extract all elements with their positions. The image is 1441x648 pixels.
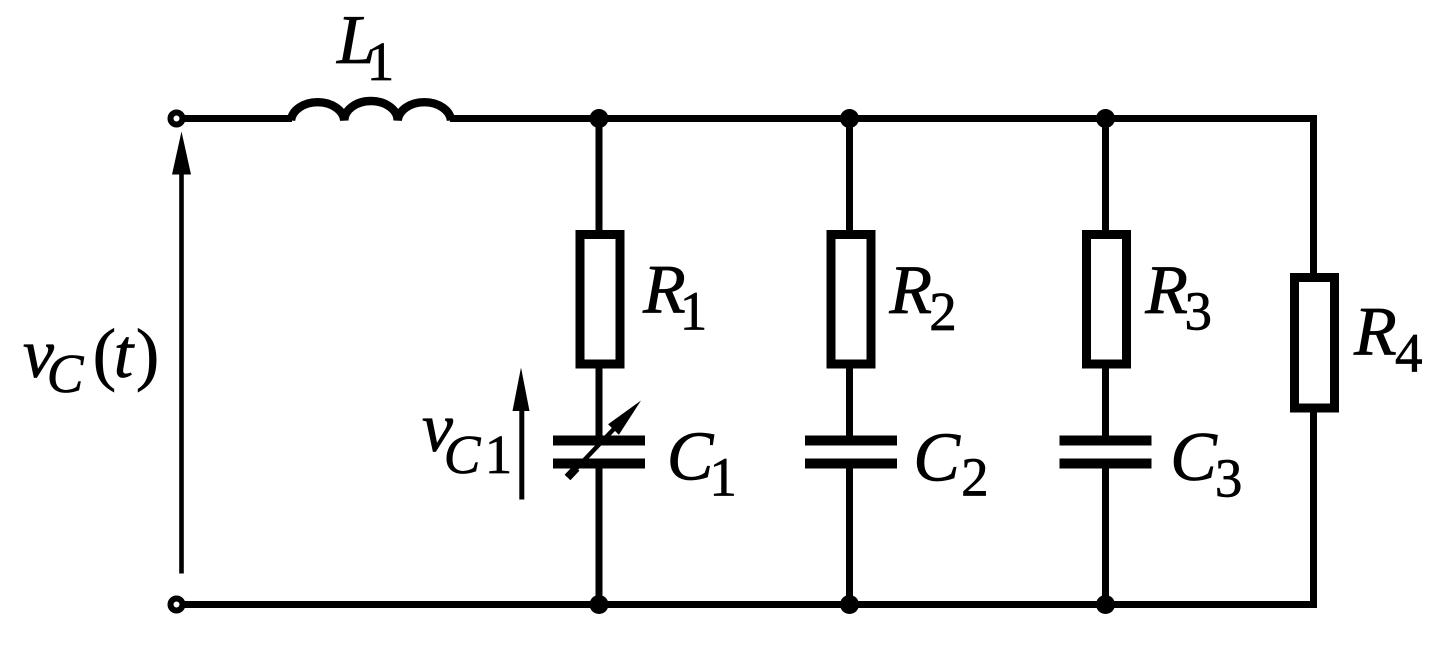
node dot top 3 bbox=[1096, 109, 1115, 128]
wire branch 2 lower bbox=[846, 462, 853, 605]
capacitor C3 bbox=[1060, 436, 1152, 469]
arrow v_C(t) bbox=[172, 132, 191, 574]
svg-text:1: 1 bbox=[367, 31, 395, 92]
svg-text:C: C bbox=[913, 419, 961, 496]
label C1 bbox=[667, 419, 737, 508]
inductor L1 bbox=[291, 101, 451, 121]
capacitor C2 bbox=[805, 436, 897, 469]
arrow v_C1 bbox=[513, 368, 530, 500]
label v_C1 bbox=[422, 390, 512, 485]
terminal top-left bbox=[171, 113, 183, 125]
svg-text:3: 3 bbox=[1215, 447, 1243, 508]
capacitor C1 (variable) bbox=[553, 436, 645, 469]
wire branch 3 lower bbox=[1102, 462, 1109, 605]
svg-text:4: 4 bbox=[1395, 322, 1423, 383]
label R2 bbox=[888, 252, 956, 342]
svg-text:1: 1 bbox=[680, 281, 708, 342]
svg-text:R: R bbox=[1144, 252, 1188, 329]
resistor R1 bbox=[580, 235, 620, 365]
svg-text:2: 2 bbox=[961, 447, 989, 508]
svg-text:1: 1 bbox=[485, 424, 513, 485]
label v_C(t) bbox=[23, 316, 159, 404]
label L1 bbox=[336, 2, 394, 92]
svg-text:2: 2 bbox=[929, 281, 957, 342]
svg-text:C: C bbox=[1170, 419, 1218, 496]
wire branch 3 upper bbox=[1102, 119, 1109, 441]
label C3 bbox=[1170, 419, 1242, 509]
node dot bottom 2 bbox=[840, 595, 859, 614]
svg-text:C: C bbox=[47, 343, 85, 404]
wire top from inductor to right corner and down to R4 bbox=[183, 119, 1314, 605]
svg-text:t: t bbox=[114, 316, 135, 393]
resistor R3 bbox=[1087, 235, 1127, 365]
svg-text:): ) bbox=[136, 316, 159, 393]
terminal bottom-left bbox=[171, 599, 183, 611]
node dot top 1 bbox=[590, 109, 609, 128]
node dot bottom 3 bbox=[1096, 595, 1115, 614]
svg-text:R: R bbox=[1353, 293, 1397, 370]
resistor R2 bbox=[831, 235, 871, 365]
svg-text:1: 1 bbox=[709, 447, 737, 508]
svg-text:R: R bbox=[888, 252, 932, 329]
svg-text:(: ( bbox=[93, 316, 116, 393]
label R1 bbox=[642, 252, 707, 342]
svg-text:3: 3 bbox=[1185, 281, 1213, 342]
arrow through C1 (variable capacitor) bbox=[568, 401, 642, 478]
wire branch 2 upper bbox=[846, 119, 853, 441]
node dot bottom 1 bbox=[590, 595, 609, 614]
label C2 bbox=[913, 419, 988, 507]
resistor R4 bbox=[1295, 278, 1335, 409]
wire top-left segment bbox=[183, 115, 292, 122]
label R4 bbox=[1353, 293, 1423, 383]
svg-text:C: C bbox=[444, 424, 482, 485]
label R3 bbox=[1144, 252, 1212, 342]
wire branch 1 upper bbox=[596, 119, 603, 441]
svg-text:C: C bbox=[667, 419, 715, 496]
wire branch 1 lower bbox=[596, 462, 603, 605]
node dot top 2 bbox=[840, 109, 859, 128]
